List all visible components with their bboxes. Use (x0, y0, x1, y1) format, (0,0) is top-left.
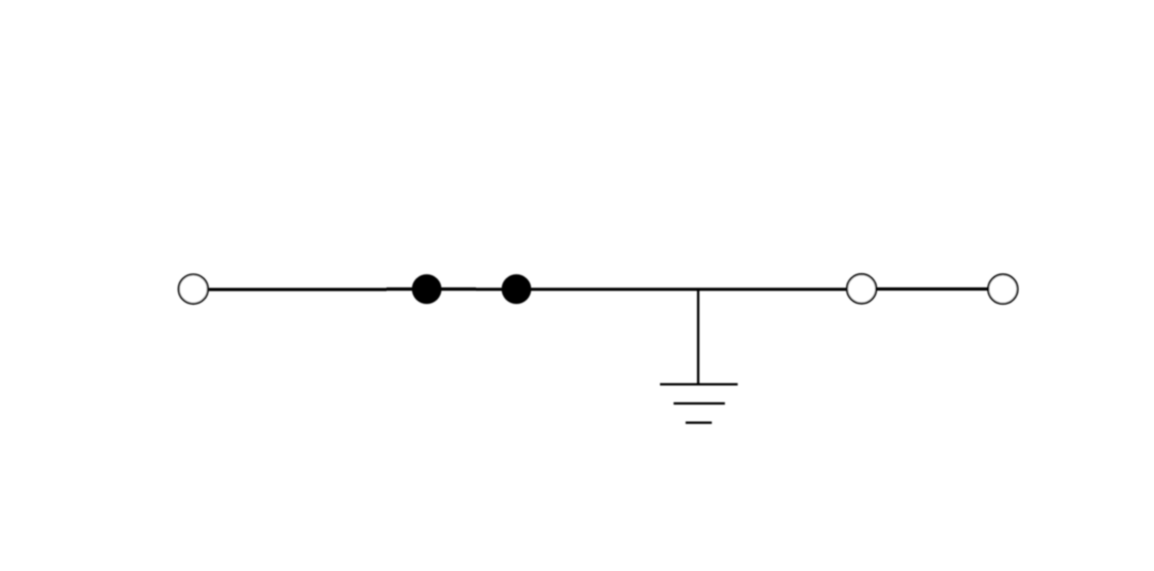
wire: left terminal to junction A (209, 288, 387, 291)
terminal T2 (right open circle) (988, 274, 1017, 303)
junction dot B (filled node) (502, 274, 532, 304)
terminal T1 (left open circle) (179, 275, 208, 304)
node C (open circle on wire) (847, 274, 876, 303)
wire: junction B to ground node to open node C (476, 288, 846, 291)
wire: junction A to junction B (387, 287, 477, 290)
ground bar 1 (660, 383, 738, 385)
wire: open node C to right terminal (877, 287, 988, 290)
ground G1 (660, 289, 738, 422)
junction dot A (filled node) (412, 274, 442, 304)
ground stem wire (697, 289, 699, 384)
ground bar 2 (674, 402, 725, 404)
ground bar 3 (686, 422, 712, 424)
